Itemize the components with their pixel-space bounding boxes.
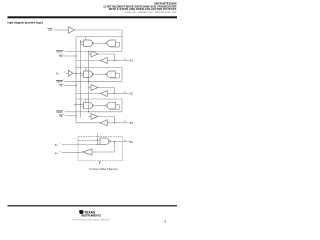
svg-text:A1: A1 — [56, 72, 60, 75]
wire loop drop to gate ch2 — [85, 68, 87, 72]
wire G1A to G1B — [95, 42, 106, 44]
wire LE elbow down — [121, 30, 123, 37]
junction — [75, 85, 76, 86]
svg-text:OE: OE — [59, 116, 63, 118]
wire driver output ch1 — [98, 53, 115, 55]
junction — [114, 122, 115, 123]
svg-text:logic diagram (positive logic): logic diagram (positive logic) — [8, 20, 43, 24]
receiver buffer ch1 (B to A) — [100, 58, 107, 64]
latch gate (other channels) — [100, 138, 109, 145]
wire LE to bus — [75, 29, 123, 31]
wire OEAB2 — [65, 80, 122, 82]
buffer input driver ch2 — [68, 70, 73, 76]
wire G3B input upper — [115, 104, 119, 106]
wire G3B feedback down — [118, 105, 120, 110]
wire receiver output (box) — [62, 151, 83, 153]
junction — [75, 55, 76, 56]
junction — [88, 51, 89, 52]
svg-text:WITH 3-STATE AND OPEN-COLLECTO: WITH 3-STATE AND OPEN-COLLECTOR OUTPUTS — [109, 7, 177, 11]
wire G2B feedback — [110, 77, 119, 79]
wire driver output ch3 — [98, 116, 115, 118]
wire A input to box — [78, 140, 100, 142]
wire driver output down ch3 — [114, 117, 116, 123]
svg-text:44: 44 — [124, 140, 126, 142]
wire right vertical ch3 — [121, 99, 123, 112]
wire port B ch1 — [115, 60, 130, 62]
header rule — [8, 16, 178, 18]
junction — [80, 41, 81, 42]
wire LE input — [55, 29, 69, 31]
junction — [80, 73, 81, 74]
wire receiver input (box) — [92, 151, 115, 153]
wire port B ch2 — [115, 93, 130, 95]
svg-text:6: 6 — [63, 84, 64, 86]
wire latch feedback loop ch2 — [76, 67, 122, 69]
junction — [97, 144, 98, 145]
wire receiver output ch1 — [76, 60, 100, 62]
svg-text:SCBS147B – JANUARY 1994 – REVI: SCBS147B – JANUARY 1994 – REVISED APRIL … — [125, 11, 178, 14]
wire receiver input ch3 — [107, 122, 114, 124]
junction — [75, 115, 76, 116]
wire second latch input ch3 — [81, 106, 84, 108]
latch gate G1B — [107, 40, 115, 47]
wire to driver ch1 — [89, 53, 92, 55]
wire driver output down ch1 — [114, 54, 116, 61]
wire G3B feedback — [110, 108, 119, 110]
svg-text:OE: OE — [59, 86, 63, 88]
svg-text:INSTRUMENTS: INSTRUMENTS — [82, 214, 102, 218]
wire port B ch3 — [115, 122, 130, 124]
wire A stub ch1 — [81, 41, 84, 43]
svg-text:4: 4 — [65, 71, 66, 73]
svg-text:To Seven Other Channels: To Seven Other Channels — [89, 168, 118, 171]
wire latch feedback loop ch3 — [76, 98, 122, 100]
svg-text:B3: B3 — [130, 122, 134, 125]
wire OEAB1 — [65, 51, 122, 53]
junction — [114, 141, 115, 142]
wire G1B feedback down — [118, 42, 120, 47]
latch gate G3A — [84, 102, 93, 109]
svg-text:7: 7 — [63, 110, 64, 112]
junction — [88, 111, 89, 112]
junction — [80, 104, 81, 105]
wire OEAB3 — [65, 111, 122, 113]
receiver buffer (other channels) — [83, 149, 92, 155]
svg-text:9: 9 — [60, 151, 61, 153]
wire loop drop to gate ch3 — [85, 99, 87, 102]
svg-text:B1: B1 — [130, 60, 134, 63]
svg-text:B4: B4 — [130, 141, 134, 144]
wire loop drop to gate ch1 — [85, 37, 87, 41]
TI logo glyph — [79, 210, 84, 215]
wire A1 to latch — [73, 72, 84, 74]
wire G1B feedback — [110, 46, 119, 48]
svg-text:45: 45 — [124, 121, 126, 123]
latch gate G3B — [107, 102, 115, 109]
svg-text:OEAB: OEAB — [56, 80, 63, 83]
junction — [75, 73, 76, 74]
wire to driver ch3 — [89, 116, 92, 118]
wire second latch input ch2 — [81, 75, 84, 77]
wire latch input in box — [62, 144, 100, 146]
svg-text:3: 3 — [164, 220, 166, 224]
wire port B (other channels) — [109, 141, 130, 143]
svg-text:2: 2 — [63, 50, 64, 52]
svg-text:3: 3 — [63, 54, 64, 56]
svg-text:POST OFFICE BOX 655303 • DALLA: POST OFFICE BOX 655303 • DALLAS, TEXAS 7… — [72, 218, 110, 221]
svg-text:OEAB: OEAB — [56, 111, 63, 114]
buffer U1 (LE driver) — [68, 27, 74, 34]
svg-text:A4: A4 — [55, 144, 58, 147]
wire driver output down ch2 — [114, 88, 116, 94]
junction — [97, 140, 98, 141]
svg-text:OE: OE — [59, 56, 63, 58]
footer rule — [8, 205, 178, 206]
wire OE1 — [65, 55, 76, 57]
driver buffer ch2 (A to B) — [91, 85, 98, 91]
wire to driver ch2 — [89, 87, 92, 89]
LE vertical bus — [75, 37, 77, 123]
continuation arrow — [99, 161, 101, 164]
svg-text:8: 8 — [63, 114, 64, 116]
latch data bus — [80, 40, 82, 118]
latch gate G2B — [107, 71, 115, 78]
wire driver output ch2 — [98, 87, 115, 89]
svg-text:B2: B2 — [130, 93, 134, 96]
wire G1B input upper — [115, 41, 119, 43]
receiver buffer ch2 (B to A) — [100, 91, 107, 97]
junction — [75, 104, 76, 105]
junction — [114, 93, 115, 94]
wire latch feedback loop ch1 — [76, 36, 122, 38]
wire G2B feedback down — [118, 73, 120, 78]
svg-text:OEAB: OEAB — [56, 51, 63, 54]
wire A input ch3 — [74, 103, 84, 105]
wire right vertical ch2 — [121, 68, 123, 82]
latch gate G2A — [84, 71, 93, 78]
receiver buffer ch3 (B to A) — [100, 120, 107, 126]
svg-text:5: 5 — [63, 80, 64, 82]
channel box (seven other channels) — [78, 136, 123, 160]
wire G3A to G3B — [95, 105, 106, 107]
svg-text:47: 47 — [124, 59, 126, 61]
wire right vertical ch1 — [121, 37, 123, 52]
junction — [88, 81, 89, 82]
wire OE2 — [65, 85, 76, 87]
junction — [114, 60, 115, 61]
wire receiver input ch2 — [107, 93, 114, 95]
wire receiver input ch1 — [107, 60, 114, 62]
driver buffer ch3 (A to B) — [91, 114, 98, 120]
wire second latch input ch1 — [81, 44, 84, 46]
svg-text:9: 9 — [60, 143, 61, 145]
svg-text:46: 46 — [124, 92, 126, 94]
svg-text:1: 1 — [53, 28, 54, 30]
driver buffer ch1 (A to B) — [91, 51, 98, 57]
svg-text:A4: A4 — [55, 152, 58, 155]
wire G2A to G2B — [95, 73, 106, 75]
wire receiver input riser (box) — [114, 142, 116, 152]
OE vertical bus — [88, 52, 90, 112]
wire G2B input upper — [115, 72, 119, 74]
wire A1 to buffer — [66, 72, 68, 74]
wire LE drop in box — [97, 133, 99, 144]
latch gate G1A — [84, 40, 93, 47]
wire OE3 — [65, 115, 76, 117]
wire receiver output ch3 — [76, 122, 100, 124]
wire receiver output ch2 — [76, 93, 100, 95]
